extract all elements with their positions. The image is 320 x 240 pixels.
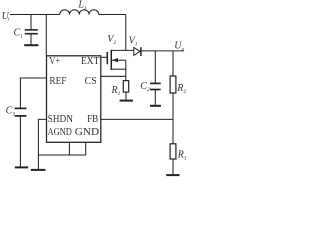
ground (R1) xyxy=(120,100,133,102)
wire: C1 to ground xyxy=(30,34,32,45)
svg-text:CS: CS xyxy=(85,75,97,87)
transistor V2 source line xyxy=(111,68,126,70)
wire: R2 drop from output rail xyxy=(172,51,174,76)
svg-text:V+: V+ xyxy=(49,55,60,67)
svg-text:V2: V2 xyxy=(107,34,116,46)
resistor R2 xyxy=(170,76,176,93)
wire: drain line from channel to diode xyxy=(111,49,134,51)
svg-text:V1: V1 xyxy=(129,35,138,47)
wire: C2 drop xyxy=(154,51,156,83)
svg-text:R2: R2 xyxy=(176,83,186,95)
svg-text:C1: C1 xyxy=(14,27,24,39)
wire: right vertical of mosfet down to CS node xyxy=(125,60,127,80)
ground (R3) xyxy=(166,174,179,176)
wire: REF pin to C3 xyxy=(20,78,46,108)
wire: R3 to ground xyxy=(172,159,174,174)
wire: ground rail under IC xyxy=(38,154,85,156)
wire: R2 bottom through FB node to R3 xyxy=(172,93,174,144)
diode V1 xyxy=(134,47,140,55)
transistor V2 arrow xyxy=(112,58,118,62)
wire: drop from inductor to drain node xyxy=(125,15,127,51)
wire: AGND stub xyxy=(68,142,70,155)
op-amp U1 IC box xyxy=(47,56,101,143)
svg-text:REF: REF xyxy=(49,75,66,87)
wire: CS pin to R1 top xyxy=(101,75,126,77)
wire: R1 to ground xyxy=(125,92,127,100)
ground (C1) xyxy=(24,44,38,46)
svg-text:Ui: Ui xyxy=(2,11,10,23)
wire: C2 to ground xyxy=(154,90,156,106)
svg-text:C3: C3 xyxy=(6,106,16,118)
svg-text:FB: FB xyxy=(87,113,98,125)
wire: GND stub xyxy=(85,142,87,155)
svg-text:R1: R1 xyxy=(111,85,121,97)
resistor R3 xyxy=(170,144,176,159)
resistor R1 xyxy=(123,81,128,93)
svg-text:SHDN: SHDN xyxy=(48,113,73,125)
transistor V2 channel bar xyxy=(110,50,112,70)
wire: FB pin to divider node xyxy=(101,118,173,120)
svg-text:C2: C2 xyxy=(140,81,150,93)
svg-text:R3: R3 xyxy=(177,150,186,162)
svg-text:GND: GND xyxy=(75,126,99,138)
wire: output rail xyxy=(141,50,184,52)
wire: V+ drop from input rail to IC corner xyxy=(45,15,47,56)
wire: C3 to ground xyxy=(19,116,21,167)
transistor V2 body line xyxy=(112,59,126,61)
ground (C2) xyxy=(150,105,161,107)
capacitor C3 xyxy=(15,108,27,116)
capacitor C2 xyxy=(150,83,161,89)
svg-text:Uo: Uo xyxy=(174,40,184,52)
svg-text:L1: L1 xyxy=(77,0,87,12)
ground (SHDN) xyxy=(31,169,46,171)
wire: input top rail from Ui to inductor xyxy=(10,14,60,16)
inductor L1 xyxy=(60,10,99,15)
svg-text:EXT: EXT xyxy=(81,55,100,67)
wire: EXT pin to gate xyxy=(101,56,107,58)
ground (C3) xyxy=(15,166,28,168)
wire: inductor to top-right corner xyxy=(99,14,126,16)
wire: SHDN pin down to ground xyxy=(38,119,46,169)
capacitor C1 xyxy=(25,30,38,34)
wire: C1 stub from input rail xyxy=(30,15,32,30)
transistor V2 gate bar xyxy=(106,52,108,64)
svg-text:AGND: AGND xyxy=(48,126,72,138)
